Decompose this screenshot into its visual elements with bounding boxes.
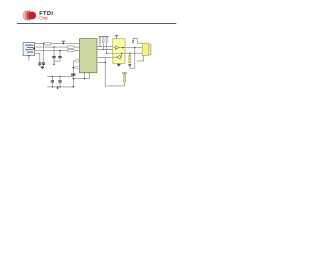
resistor R9 [124,73,126,82]
pin mark pin1 [84,72,86,73]
pin mark pin2 [89,72,91,73]
resistor R1 [67,46,74,48]
wire U2 internal through B [113,52,125,54]
wire bottom run to R9 [105,82,124,86]
wire VBUS (USB pin1 to chip) [35,43,80,45]
node U2 B [121,53,122,54]
ground under osc rail [56,87,58,89]
node C6 top [52,76,53,77]
chip U1 FT232R [80,39,97,73]
node R4 tap [73,67,74,68]
ground tick J2 [137,61,139,62]
node x134.8 tap [134,47,135,48]
buffer A in U2 [115,46,119,50]
node C5 lower [73,78,74,79]
wire U2 to J2 bottom [125,52,142,54]
wire U2 internal out B [113,56,116,58]
wire osc top rail [47,75,73,77]
ferrite bead FB1 [44,42,51,45]
wire vertical from node to bottom [134,48,136,69]
node 5V on VBUS [63,43,64,44]
logo separator line [17,23,176,25]
node R7 tap [106,53,107,54]
wire CTS chip bend [97,61,105,63]
node C7 bottom [59,86,60,87]
capacitor C3 [52,47,55,61]
connector J2 DB9 [142,43,151,55]
wire RXD chip to U2 [97,49,113,51]
wire J1 shield stub [28,56,30,61]
buffer B in U2 [116,55,120,59]
wire C3 C4 join [54,60,60,62]
power bar R9 VCC [122,72,127,74]
ground under C3 [53,58,55,66]
capacitor C8 under R8 [129,63,132,66]
wire chassis to J2 [133,39,142,44]
node osc gnd [57,86,58,87]
wire bottom pins bus [73,78,89,80]
USB connector J1 [23,42,35,55]
wire C1 C2 join [40,66,44,67]
node C6 bottom [52,86,53,87]
wire 3V3 vertical [72,61,74,87]
resistor R5 [99,36,100,46]
node CTS join [105,62,106,63]
node VBUS cap branch [43,43,44,44]
resistor box R4 [73,67,79,69]
wire U2 internal out A [119,47,125,49]
node C7 top [59,76,60,77]
wire U2 out to J2 top [125,47,142,49]
node U2 out A [122,47,123,48]
power bar 5V [62,41,66,43]
wire chip bottom pin2 [88,73,90,79]
node J1 shield [28,55,29,56]
FTDI logo red disc [28,12,36,20]
wire USBDM (USB pin2 to FB) [35,46,68,48]
FTDI logo crescent arcs [23,11,30,20]
resistor R2 [67,49,74,51]
wire VBUS cap branch [43,44,45,64]
node pin1 join [84,78,85,79]
wire TXD chip to U2 [97,45,113,47]
wire R8 bottom to vertical [130,66,135,69]
node R5 tap [99,46,100,47]
power bar VCCIO [99,35,109,37]
ground under C5 [72,86,74,88]
wire U2 internal branch B [120,53,121,57]
power bar U2 VCC [115,36,119,39]
ground under U2 [117,63,120,66]
capacitor C6 [51,76,54,87]
svg-text:Chip: Chip [39,16,48,21]
wire node to U2 input [107,52,113,54]
wire J2 bottom lead [138,56,144,61]
resistor R8 [129,53,131,62]
capacitor C2 [42,63,45,66]
wire USBDM (R to chip) [74,46,79,48]
wire U2 internal in A [113,47,116,49]
IC U2 level shifter [113,39,125,64]
node cap B tap [59,50,60,51]
wire USBDP (USB pin3 to R) [35,50,68,52]
node R6 tap [103,49,104,50]
node cap A tap [53,46,54,47]
ground under C1 C2 [41,67,44,69]
wire vertical drop right of chip [104,57,106,86]
resistor box R3 [73,60,79,62]
wire RTS chip to U2 [97,56,113,58]
chassis ground near J2 [132,39,134,43]
wire USBDP (R to chip) [74,50,79,52]
capacitor C1 [38,63,41,66]
resistor R7 [106,36,107,53]
resistor R6 [103,36,104,49]
wire chip bottom pin1 [84,73,86,79]
node R8 tap [129,53,130,54]
capacitor C5 [71,74,75,75]
capacitor C7 [58,76,61,87]
capacitor C4 [58,51,61,62]
wire USB GND pin [35,53,40,63]
wire osc bottom rail [47,86,73,88]
